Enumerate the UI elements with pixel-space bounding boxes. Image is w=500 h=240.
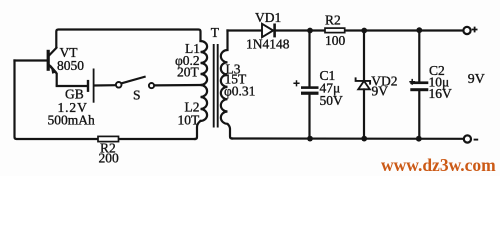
svg-text:VD1: VD1 — [255, 10, 281, 25]
svg-text:9V: 9V — [468, 71, 485, 86]
svg-text:200: 200 — [99, 151, 120, 166]
svg-text:φ0.31: φ0.31 — [224, 84, 255, 99]
svg-text:1N4148: 1N4148 — [246, 37, 290, 52]
svg-text:R2: R2 — [325, 13, 341, 28]
svg-text:www.dz3w.com: www.dz3w.com — [381, 155, 496, 175]
svg-text:50V: 50V — [320, 93, 344, 108]
svg-text:16V: 16V — [429, 86, 453, 101]
svg-text:20T: 20T — [177, 65, 200, 80]
svg-text:9V: 9V — [372, 84, 389, 99]
svg-text:S: S — [133, 88, 141, 103]
svg-text:500mAh: 500mAh — [48, 113, 96, 128]
svg-text:T: T — [211, 25, 220, 40]
svg-text:100: 100 — [325, 33, 346, 48]
svg-text:10T: 10T — [178, 113, 201, 128]
svg-text:8050: 8050 — [57, 58, 84, 73]
